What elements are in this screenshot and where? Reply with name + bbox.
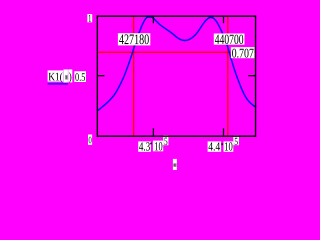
plot box border xyxy=(97,16,255,136)
multiplication dot xyxy=(221,143,223,145)
x-axis exponent 5 xyxy=(233,135,239,145)
marker label 440700 xyxy=(214,34,245,45)
marker label 427180 xyxy=(118,33,150,45)
y-axis expression argument slot f xyxy=(63,69,68,82)
y-axis tick label 0.5 xyxy=(74,71,86,82)
red marker line vertical at f=427180 xyxy=(133,17,135,136)
tick y=0.5 left xyxy=(97,75,104,77)
y-axis expression K1( xyxy=(48,70,64,82)
x-axis tick label 10 xyxy=(224,141,234,151)
y-axis limit label 1 xyxy=(87,14,92,22)
tick x=4.3e5 top xyxy=(152,17,154,23)
tick x=4.4e5 top xyxy=(223,17,225,23)
x-axis exponent 5 xyxy=(163,135,168,145)
y-axis expression closing paren xyxy=(68,69,72,82)
x-axis variable f xyxy=(173,159,177,170)
tick x=4.4e5 bottom xyxy=(223,128,225,135)
blue trace K1(f) xyxy=(98,17,256,111)
marker label 0.707 xyxy=(231,47,255,58)
x-axis tick label 4.3 xyxy=(138,141,151,151)
tick x=4.3e5 bottom xyxy=(152,128,154,135)
tick y=0.5 right xyxy=(248,75,255,77)
magenta background xyxy=(0,0,272,170)
multiplication dot xyxy=(150,143,152,145)
blue edit underline under K1(f xyxy=(48,83,68,84)
x-axis tick label 10 xyxy=(153,141,163,152)
red marker line horizontal at K=0.707 xyxy=(98,51,255,53)
red marker line vertical at f=440700 xyxy=(227,17,229,136)
x-axis tick label 4.4 xyxy=(208,141,222,151)
y-axis limit label 0 xyxy=(88,135,92,145)
